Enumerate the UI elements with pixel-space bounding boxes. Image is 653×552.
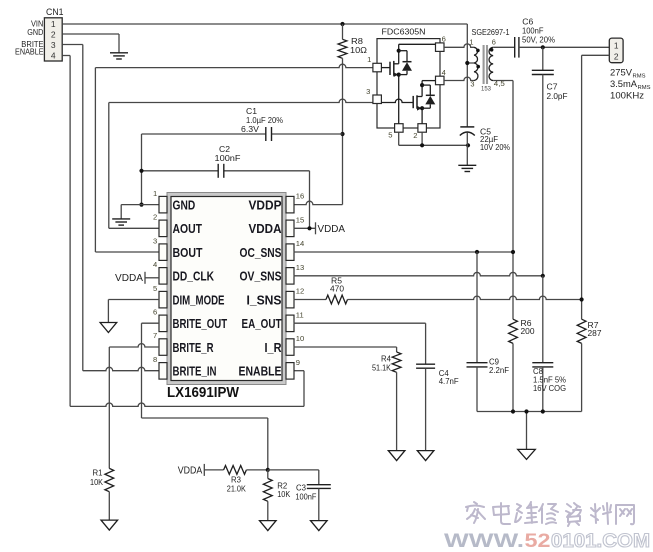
- svg-text:4.7nF: 4.7nF: [439, 377, 459, 386]
- junction C5/bus: [466, 143, 470, 147]
- svg-text:ENABLE: ENABLE: [15, 47, 44, 57]
- label C8 value: [533, 367, 566, 393]
- U1 pin 7 box (BRITE_R): [159, 339, 167, 356]
- svg-text:10: 10: [296, 334, 304, 343]
- U1 pin 7 number: [153, 331, 157, 340]
- label C9 value: [489, 357, 509, 374]
- ground earth (IC GND): [112, 219, 130, 225]
- CN1 pin 1 number: [51, 19, 56, 29]
- T1 pin 6 number: [492, 37, 496, 46]
- svg-text:3: 3: [153, 236, 157, 245]
- wire U2 pin2 stub: [421, 132, 423, 145]
- wire GND from CN1-2: [62, 34, 119, 53]
- resistor R2: [263, 470, 272, 521]
- U1 pin 11 number: [296, 310, 304, 319]
- transistor pack U2 FDC6305N box: [377, 39, 440, 128]
- U1 pin 4 number: [153, 260, 157, 269]
- svg-text:CN1: CN1: [46, 7, 64, 17]
- capacitor C5 (polarized): [460, 127, 475, 165]
- junction bus/stub: [524, 409, 528, 413]
- svg-text:AOUT: AOUT: [173, 221, 203, 236]
- svg-text:10K: 10K: [277, 490, 291, 499]
- T1 secondary phase dot: [490, 48, 494, 52]
- ground triangle (DIM_MODE): [100, 323, 117, 333]
- T1 pin 4,5 number: [494, 79, 505, 88]
- svg-text:VDDA: VDDA: [249, 221, 283, 236]
- svg-text:DIM_MODE: DIM_MODE: [173, 292, 225, 307]
- svg-text:0101.COM: 0101.COM: [551, 530, 650, 552]
- ground earth (C5): [458, 165, 476, 171]
- CN2 pin 2 number: [614, 52, 619, 62]
- wire I_SNS net via R5 (pin 12 to R7 top): [294, 296, 582, 299]
- CN1 pin name VIN: [31, 19, 43, 29]
- svg-text:16: 16: [296, 192, 304, 201]
- wire C2 net: [142, 171, 310, 229]
- svg-text:VDDA: VDDA: [115, 273, 143, 284]
- wire C6 to output connector pin 1: [519, 46, 609, 48]
- U1 pin 10 number: [296, 334, 304, 343]
- junction R3/R2/C3: [266, 468, 270, 472]
- wire EA_OUT net (pin 11 to C4): [294, 323, 426, 364]
- junction VDDP/C1: [340, 132, 344, 136]
- svg-text:200: 200: [521, 327, 536, 336]
- wire secondary low to R6: [493, 81, 513, 320]
- svg-text:1: 1: [614, 41, 619, 51]
- U1 pin name VDDA: [249, 221, 283, 236]
- node VDDA tag bottom: [178, 464, 205, 477]
- ground earth (input GND): [110, 53, 128, 59]
- CN1 pin 2 number: [51, 30, 56, 40]
- U1 pin 8 number: [153, 355, 157, 364]
- ground triangle (C3): [311, 521, 328, 531]
- svg-text:100nF: 100nF: [522, 27, 544, 36]
- wire IC GND pin1 to earth: [121, 205, 159, 219]
- U1 pin 3 box (BOUT): [159, 244, 167, 261]
- label R1 value: [90, 468, 104, 487]
- capacitor C8: [532, 276, 553, 412]
- svg-text:BOUT: BOUT: [173, 245, 203, 260]
- U1 pin name DIM_MODE: [173, 292, 225, 307]
- svg-text:4: 4: [442, 68, 446, 77]
- label R5 value: [330, 276, 345, 293]
- svg-text:10Ω: 10Ω: [350, 46, 367, 55]
- transformer T1 primary winding: [474, 47, 478, 80]
- svg-text:R4: R4: [381, 354, 392, 363]
- wire DIM_MODE to ground: [108, 300, 159, 323]
- svg-text:21.0K: 21.0K: [227, 485, 247, 494]
- U2 pin 1 box: [373, 63, 382, 72]
- svg-text:OV_SNS: OV_SNS: [240, 269, 282, 284]
- svg-text:DD_CLK: DD_CLK: [173, 269, 215, 284]
- ground triangle (R1): [101, 520, 118, 530]
- U1 pin name OC_SNS: [240, 245, 282, 260]
- label R7 value: [588, 321, 603, 338]
- U1 pin 6 number: [153, 308, 157, 317]
- wire OC_SNS net (pin 14 to R6 top): [294, 251, 514, 253]
- svg-text:52: 52: [525, 530, 551, 552]
- junction C1/C2 rail: [139, 169, 143, 173]
- label LX1691IPW: [167, 384, 240, 401]
- T1 value 153: [481, 86, 491, 93]
- U1 pin 5 number: [153, 284, 157, 293]
- label C5 value: [480, 127, 510, 152]
- junction C7/output rail: [541, 45, 545, 49]
- svg-text:6: 6: [442, 34, 446, 43]
- svg-text:1: 1: [367, 55, 371, 64]
- U1 pin 12 box (I_SNS): [286, 291, 294, 308]
- U1 pin name BRITE_IN: [173, 364, 217, 379]
- svg-text:153: 153: [481, 86, 491, 93]
- svg-text:GND: GND: [27, 27, 43, 37]
- U1 pin name I_R: [265, 340, 283, 355]
- svg-text:SGE2697-1: SGE2697-1: [472, 27, 510, 37]
- watermark url 0101.COM: [551, 530, 650, 552]
- transformer T1 core: [484, 45, 487, 84]
- U2 pin 4 box: [436, 76, 445, 85]
- CN1 pin name ENABLE: [15, 47, 44, 57]
- CN1 pin 3 number: [51, 40, 56, 50]
- wire center tap: [467, 62, 474, 64]
- capacitor C4: [416, 364, 435, 450]
- transformer T1 secondary winding: [489, 47, 493, 80]
- U2 pin 5 box: [395, 124, 404, 133]
- svg-text:VDDA: VDDA: [178, 465, 203, 476]
- label C1 value: [241, 107, 283, 134]
- junction center tap: [465, 61, 469, 65]
- wire VIN rail (CN1-1 to transformer center tap): [62, 24, 467, 63]
- label R2 value: [277, 481, 291, 498]
- CN1 pin name BRITE: [21, 39, 44, 49]
- U2 pin 6 box: [436, 43, 445, 52]
- U1 pin 2 box (AOUT): [159, 220, 167, 237]
- label SGE2697-1: [472, 27, 510, 37]
- U1 pin name AOUT: [173, 221, 203, 236]
- svg-text:VDDP: VDDP: [249, 197, 282, 212]
- resistor R3: [204, 466, 267, 475]
- ground triangle (C4): [417, 451, 434, 461]
- junction Q2 drain node: [420, 83, 424, 87]
- diode D2 (Q2 body diode): [422, 85, 435, 108]
- connector CN1: [44, 18, 62, 61]
- CN1 pin name GND: [27, 27, 43, 37]
- U1 pin 1 number: [153, 189, 157, 198]
- svg-text:1: 1: [51, 19, 56, 29]
- svg-text:ENABLE: ENABLE: [239, 364, 282, 379]
- svg-text:3: 3: [470, 79, 474, 88]
- svg-text:13: 13: [296, 263, 304, 272]
- svg-text:1: 1: [469, 37, 473, 46]
- U1 pin name ENABLE: [239, 364, 282, 379]
- svg-text:BRITE_OUT: BRITE_OUT: [173, 316, 228, 331]
- svg-text:C1: C1: [246, 107, 258, 116]
- capacitor C7: [532, 47, 554, 275]
- node VDDA tag at DD_CLK pin 4: [115, 272, 159, 284]
- svg-text:C2: C2: [219, 145, 231, 154]
- svg-text:275V: 275V: [610, 66, 633, 77]
- T1 primary phase dot (pin 1 side): [476, 49, 480, 53]
- svg-text:C3: C3: [296, 483, 307, 492]
- wire secondary high to C6: [493, 46, 515, 48]
- U2 pin 3 number: [366, 87, 370, 96]
- U1 pin name I_SNS: [247, 292, 282, 307]
- svg-text:OC_SNS: OC_SNS: [240, 245, 282, 260]
- svg-text:3: 3: [51, 40, 56, 50]
- capacitor C9: [467, 252, 488, 412]
- svg-text:12: 12: [296, 287, 304, 296]
- svg-text:100KHz: 100KHz: [610, 90, 644, 101]
- wire output low (connector pin 2 to R7): [582, 55, 610, 319]
- junction Q2 source node: [420, 106, 424, 110]
- label R6 value: [521, 319, 536, 336]
- transistor Q2 (lower MOSFET in U2): [381, 81, 435, 124]
- svg-text:WWW.: WWW.: [444, 530, 524, 552]
- T1 primary phase dot (center tap side): [476, 65, 480, 69]
- wire C1 net: [142, 134, 343, 205]
- svg-text:10K: 10K: [90, 478, 104, 487]
- U1 pin name DD_CLK: [173, 269, 215, 284]
- svg-text:3.5mA: 3.5mA: [610, 78, 638, 89]
- U1 pin 16 box (VDDP): [286, 196, 294, 213]
- resistor R4: [392, 352, 401, 451]
- U1 pin 9 number: [296, 358, 300, 367]
- label output rating 3.5mArms: [610, 78, 651, 91]
- svg-text:R8: R8: [351, 37, 364, 46]
- junction VDDA/C2: [307, 226, 311, 230]
- U1 pin 5 box (DIM_MODE): [159, 291, 167, 308]
- U1 pin 16 number: [296, 192, 304, 201]
- resistor R5: [326, 295, 348, 304]
- watermark url 52: [525, 530, 551, 552]
- label C3 value: [295, 483, 316, 501]
- label R4 value: [372, 354, 392, 372]
- U1 pin 13 number: [296, 263, 304, 272]
- U1 pin 14 box (OC_SNS): [286, 244, 294, 261]
- label R3 value: [227, 475, 247, 493]
- label CN1: [46, 7, 64, 17]
- watermark url www: [444, 530, 524, 552]
- U1 pin 8 box (BRITE_IN): [159, 363, 167, 380]
- op-amp U1 LX1691IPW body: [167, 193, 286, 385]
- label R8 value: [350, 37, 367, 55]
- wire OV_SNS net (pin 13 to C7/C8 node): [294, 272, 543, 275]
- svg-text:51.1K: 51.1K: [372, 364, 392, 373]
- label output rating 100KHz: [610, 90, 644, 101]
- U2 pin 3 box: [373, 95, 382, 104]
- svg-text:15: 15: [296, 215, 304, 224]
- label C4 value: [439, 369, 459, 386]
- transistor Q1 (upper MOSFET in U2): [381, 44, 435, 123]
- wire U2 pin5/pin2 source bus: [399, 132, 468, 145]
- capacitor C2: [218, 164, 224, 178]
- wire VDDA pin 15: [294, 222, 316, 234]
- svg-text:5: 5: [153, 284, 157, 293]
- wire BOUT net (IC pin3 to FDC pin1): [95, 64, 373, 252]
- connector CN2 output: [609, 38, 623, 63]
- U1 pin name OV_SNS: [240, 269, 282, 284]
- svg-text:2: 2: [614, 52, 619, 62]
- capacitor C1: [266, 127, 272, 141]
- svg-text:1.0µF 20%: 1.0µF 20%: [246, 116, 283, 125]
- U1 pin 1 box (GND): [159, 196, 167, 213]
- U1 pin 10 box (I_R): [286, 339, 294, 356]
- svg-text:6: 6: [153, 308, 157, 317]
- svg-text:11: 11: [296, 310, 304, 319]
- svg-text:470: 470: [330, 285, 345, 294]
- junction C1 rail / IC GND: [139, 203, 143, 207]
- svg-text:287: 287: [588, 329, 603, 338]
- label C2 value: [215, 145, 241, 163]
- svg-text:FDC6305N: FDC6305N: [382, 26, 426, 36]
- svg-text:R3: R3: [231, 475, 242, 484]
- U1 pin 12 number: [296, 287, 304, 296]
- U1 pin 11 box (EA_OUT): [286, 315, 294, 332]
- U1 pin name GND: [173, 197, 196, 212]
- U2 pin 6 number: [442, 34, 446, 43]
- resistor R1: [105, 468, 114, 520]
- svg-text:4: 4: [51, 50, 56, 60]
- wire Q2 drain to transformer pin 3: [444, 77, 474, 80]
- junction OC_SNS/R6: [511, 250, 515, 254]
- svg-text:3: 3: [366, 87, 370, 96]
- CN1 pin 4 number: [51, 50, 56, 60]
- CN2 pin 1 number: [614, 41, 619, 51]
- svg-text:VDDA: VDDA: [318, 224, 346, 235]
- svg-text:1: 1: [153, 189, 157, 198]
- svg-text:2.0pF: 2.0pF: [547, 92, 568, 101]
- U1 pin 15 number: [296, 215, 304, 224]
- junction Q1 drain node: [397, 49, 401, 53]
- wire I_R net (pin 10 to R4): [294, 347, 397, 352]
- watermark text (Chinese): [466, 502, 634, 526]
- svg-text:7: 7: [153, 331, 157, 340]
- svg-text:2: 2: [51, 30, 56, 40]
- junction bus/R6: [511, 409, 515, 413]
- diode D1 (Q1 body diode): [399, 51, 412, 75]
- ground triangle (bus): [518, 449, 536, 459]
- svg-text:C7: C7: [547, 82, 559, 91]
- junction bus/C8: [541, 409, 545, 413]
- capacitor C3: [307, 485, 331, 521]
- svg-text:C6: C6: [522, 17, 534, 26]
- wire AOUT net (IC pin2 to FDC pin3): [109, 99, 373, 228]
- wire Q1 drain to transformer pin 1: [444, 44, 474, 47]
- T1 pin 1 number: [469, 37, 473, 46]
- wire BRITE_OUT net (pin 6 to R2/R3/C3 node): [142, 323, 268, 470]
- svg-text:6.3V: 6.3V: [241, 125, 260, 134]
- wire BRITE net (CN1-3 to BRITE_IN pin 8): [62, 45, 159, 371]
- svg-text:4: 4: [153, 260, 157, 269]
- U2 pin 4 number: [442, 68, 446, 77]
- U1 pin name BRITE_R: [173, 340, 214, 355]
- junction Q1 source node: [397, 73, 401, 77]
- U1 pin 15 box (VDDA): [286, 220, 294, 237]
- junction OC_SNS/C9: [475, 250, 479, 254]
- label output rating 275Vrms: [610, 66, 646, 79]
- U1 pin name VDDP: [249, 197, 282, 212]
- svg-text:50V, 20%: 50V, 20%: [522, 35, 555, 44]
- svg-text:8: 8: [153, 355, 157, 364]
- svg-text:R1: R1: [93, 468, 104, 477]
- U1 pin 9 box (ENABLE): [286, 363, 294, 380]
- svg-text:100nF: 100nF: [215, 154, 241, 163]
- svg-text:10V 20%: 10V 20%: [480, 143, 510, 152]
- svg-text:16V COG: 16V COG: [533, 384, 566, 393]
- svg-text:14: 14: [296, 239, 304, 248]
- junction pin2/bus: [420, 143, 424, 147]
- svg-text:BRITE_IN: BRITE_IN: [173, 364, 217, 379]
- ground triangle (R4): [388, 451, 405, 461]
- wire ground bus (C9/R6/C8/R7): [477, 412, 582, 450]
- svg-text:GND: GND: [173, 197, 196, 212]
- U1 pin 14 number: [296, 239, 304, 248]
- ground triangle (R2): [260, 521, 277, 531]
- svg-text:EA_OUT: EA_OUT: [242, 316, 282, 331]
- resistor R7: [577, 319, 586, 411]
- wire BRITE_R net (pin 7 to R1): [109, 344, 159, 469]
- wire VDDP rail (R8 to IC pin 16): [294, 134, 343, 205]
- svg-text:100nF: 100nF: [295, 493, 316, 502]
- svg-text:LX1691IPW: LX1691IPW: [167, 384, 240, 401]
- junction I_SNS/R7: [580, 297, 584, 301]
- T1 pin 3 number: [470, 79, 474, 88]
- U1 pin name BRITE_OUT: [173, 316, 228, 331]
- junction VIN/R8: [340, 22, 344, 26]
- svg-text:2: 2: [413, 131, 417, 140]
- resistor R6: [509, 319, 518, 411]
- label C7 value: [547, 82, 568, 101]
- capacitor C6: [515, 37, 519, 58]
- wire to C3: [268, 470, 319, 485]
- U1 pin 3 number: [153, 236, 157, 245]
- U2 pin 2 box: [418, 124, 427, 133]
- node VDDA tag at pin 15: [318, 224, 346, 235]
- svg-text:2.2nF: 2.2nF: [489, 366, 509, 375]
- svg-text:I_SNS: I_SNS: [247, 292, 282, 307]
- U1 pin 4 box (DD_CLK): [159, 268, 167, 285]
- U2 pin 1 number: [367, 55, 371, 64]
- svg-text:BRITE_R: BRITE_R: [173, 340, 214, 355]
- svg-text:2: 2: [153, 213, 157, 222]
- U1 pin name EA_OUT: [242, 316, 282, 331]
- label C6 value: [522, 17, 555, 44]
- U1 pin 13 box (OV_SNS): [286, 268, 294, 285]
- U2 pin 5 number: [388, 131, 392, 140]
- U1 pin name BOUT: [173, 245, 203, 260]
- svg-text:5: 5: [388, 131, 392, 140]
- svg-text:6: 6: [492, 37, 496, 46]
- junction OV_SNS/C7/C8: [541, 274, 545, 278]
- U2 pin 2 number: [413, 131, 417, 140]
- U1 pin 6 box (BRITE_OUT): [159, 315, 167, 332]
- wire ENABLE net (CN1-4 to IC pin 9): [62, 56, 304, 407]
- svg-text:I_R: I_R: [265, 340, 283, 355]
- svg-text:9: 9: [296, 358, 300, 367]
- resistor R8: [338, 24, 347, 134]
- wire VIN to C5: [466, 63, 468, 127]
- label FDC6305N: [382, 26, 426, 36]
- U1 pin 2 number: [153, 213, 157, 222]
